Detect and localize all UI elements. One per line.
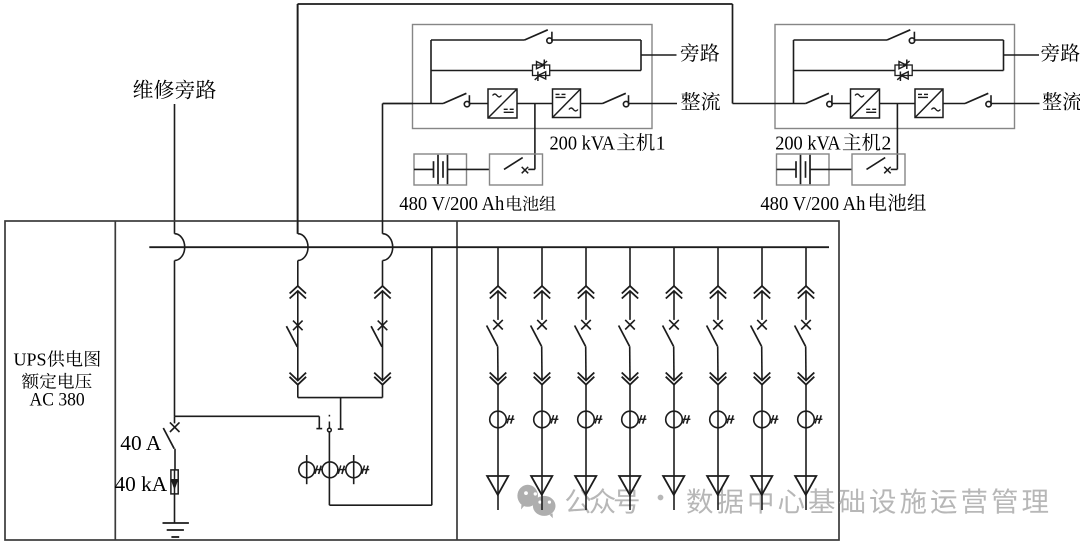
wire feeder F8 below breaker (805, 346, 807, 380)
label board title UPS供电图/额定电压/AC 380 (14, 349, 100, 410)
drawout chevrons lower F4 (622, 373, 639, 385)
wire feeder F2 below breaker (541, 346, 543, 380)
load arrow F2 (531, 476, 552, 495)
rectifier U2 (AC/DC converter box) (915, 89, 943, 118)
wire feeder F1 drop from bus (497, 247, 499, 286)
static switch U2 (anti-parallel thyristors) (895, 60, 912, 82)
svg-text:UPS: UPS (14, 349, 47, 369)
wire U1 to inverter (470, 103, 488, 105)
wire SPD to earth (174, 494, 176, 523)
load arrow F6 (707, 476, 728, 495)
label battery B1 480 V/200 Ah电池组 (399, 193, 555, 215)
breaker QF5 (663, 320, 679, 346)
wire U2 rectifier feed stub (991, 103, 1039, 105)
drawout chevrons upper F8 (798, 286, 814, 299)
label rectifier U2 (整流) (1043, 92, 1080, 111)
drawout chevrons lower F3 (578, 373, 595, 385)
wire U2 rectifier input (943, 103, 965, 105)
wire feeder F6 drop from bus (717, 247, 719, 286)
node drawout hop at UPS2 output feeder (383, 234, 393, 261)
wire U2 bypass right vertical (1003, 40, 1005, 71)
wire U1 DC link (517, 103, 553, 105)
UPS unit U1 enclosure box (413, 25, 653, 129)
breaker UPS2 output feeder (371, 321, 387, 347)
wire U2 bypass top (794, 39, 888, 41)
wire U1 inverter output (383, 103, 443, 105)
switch U2 inverter output isolator (806, 93, 833, 107)
battery B2 cells (777, 155, 853, 184)
drawout chevrons lower F5 (666, 373, 683, 385)
load arrow F1 (487, 476, 508, 495)
breaker QF4 (619, 320, 635, 346)
inverter U1 (DC/AC converter box) (488, 89, 517, 118)
board title section divider (114, 221, 116, 540)
drawout chevrons upper (UPS2 output) (374, 286, 390, 299)
wire feeder F5 drop from bus (673, 247, 675, 286)
breaker QB2 battery (867, 158, 898, 174)
wire U2 DC link (880, 103, 916, 105)
label U1 200 kVA主机1 (550, 133, 666, 154)
wire feeder F6 below breaker (717, 346, 719, 380)
wire feeder F5 to meter (673, 385, 675, 510)
wire U2 static-switch left (794, 70, 896, 72)
wire feeder F3 mid (585, 291, 587, 320)
wire U2 inverter output (733, 103, 806, 105)
meter PA1 with CT tap (299, 455, 322, 484)
label battery B2 480 V/200 Ah电池组 (760, 193, 925, 215)
switch U2 rectifier input isolator (965, 93, 991, 107)
wire UPS2 feed riser (297, 4, 299, 234)
wire feeder F8 mid (805, 291, 807, 320)
switch QB1 battery breaker box (490, 154, 543, 185)
wire U2 to inverter (832, 103, 850, 105)
wire to SPD (174, 449, 176, 470)
wire U1 static-switch left (431, 70, 533, 72)
watermark WeChat logo (517, 485, 555, 519)
meter PA2 with CT tap (322, 462, 346, 478)
meter PA F2 (534, 411, 559, 428)
drawout chevrons upper F3 (578, 286, 594, 299)
wire U1 battery DC riser (534, 104, 536, 170)
wire U1 bypass top right (553, 39, 642, 41)
svg-text:2: 2 (882, 133, 892, 154)
drawout chevrons lower (UPS1 output) (290, 373, 307, 385)
drawout chevrons upper F6 (710, 286, 726, 299)
drawout chevrons lower (UPS2 output) (374, 373, 391, 385)
switch U1 rectifier input isolator (603, 93, 629, 107)
wire feeder F5 mid (673, 291, 675, 320)
wire UPS1 feed riser (383, 104, 414, 234)
meter PA F6 (710, 411, 735, 428)
ground earth electrode (163, 523, 189, 537)
meter PA F8 (798, 411, 823, 428)
wire U2 bypass input stub (1004, 54, 1040, 56)
switch QB2 battery breaker box (852, 154, 905, 185)
node drawout hop at maintenance bypass feeder (175, 234, 185, 261)
drawout chevrons upper (UPS1 output) (290, 286, 306, 299)
SPD FV1 40 kA surge arrester (171, 470, 178, 494)
wire maintenance bypass drop (174, 104, 176, 234)
drawout chevrons lower F2 (534, 373, 551, 385)
switch U1 bypass isolator (525, 30, 553, 44)
svg-text:40 kA: 40 kA (115, 472, 169, 496)
meter PA F4 (622, 411, 647, 428)
label maintenance bypass (维修旁路) (134, 80, 216, 100)
meter PA F5 (666, 411, 691, 428)
meter PA3 with CT tap (346, 455, 369, 484)
svg-text:1: 1 (656, 133, 666, 154)
node transfer switch bypass-side contact (316, 416, 322, 428)
wire U1 bypass input stub (641, 54, 677, 56)
inverter U2 (DC/AC converter box) (851, 89, 880, 118)
wire feeder F3 drop from bus (585, 247, 587, 286)
wire UPS2 output feeder drop (382, 261, 384, 398)
wire feeder F4 drop from bus (629, 247, 631, 286)
battery B1 box (414, 154, 467, 185)
battery B1 cells (414, 155, 490, 184)
wire feeder F4 mid (629, 291, 631, 320)
drawout chevrons upper F7 (754, 286, 770, 299)
breaker QF1 (487, 320, 503, 346)
meter PA F1 (490, 411, 515, 428)
wire SPD branch drop (174, 416, 176, 423)
wire feeder F7 to meter (761, 385, 763, 510)
wire feeder F1 below breaker (497, 346, 499, 380)
transfer switch SA common pole (328, 415, 332, 432)
breaker QF2 (531, 320, 547, 346)
wire maintenance bypass horizontal to transfer switch (175, 415, 320, 417)
wire output bus riser (431, 247, 433, 505)
wire feeder F7 mid (761, 291, 763, 320)
label rectifier U1 (整流) (681, 92, 720, 111)
wire feeder F1 to meter (497, 385, 499, 510)
wire feeder F8 drop from bus (805, 247, 807, 286)
wire feeder F2 drop from bus (541, 247, 543, 286)
wire UPS outputs paralleling tie (298, 397, 383, 399)
drawout chevrons lower F7 (754, 373, 771, 385)
wire feeder F2 mid (541, 291, 543, 320)
load arrow F4 (619, 476, 640, 495)
wire U1 output riser (left inner vertical) (430, 40, 432, 104)
breaker QF3 (575, 320, 591, 346)
breaker QB1 battery (504, 158, 535, 174)
wire top feed from output-bus riser to UPS2 rectifier input (298, 4, 733, 234)
drawout chevrons upper F5 (666, 286, 682, 299)
svg-text:480 V/200 Ah: 480 V/200 Ah (399, 193, 504, 215)
UPS unit U2 enclosure box (775, 25, 1015, 129)
node transfer switch UPS-side contact (338, 398, 344, 430)
wire feeder F5 below breaker (673, 346, 675, 380)
wire feeder F7 drop from bus (761, 247, 763, 286)
svg-text:AC 380: AC 380 (30, 391, 85, 411)
load arrow F8 (795, 476, 816, 495)
wire U1 bypass top (431, 39, 525, 41)
breaker QF8 (795, 320, 811, 346)
wire feeder F8 to meter (805, 385, 807, 510)
meter PA F3 (578, 411, 603, 428)
wire U1 rectifier input (581, 103, 603, 105)
switch U2 bypass isolator (887, 30, 915, 44)
wire U2 static-switch right (912, 70, 1003, 72)
svg-text:200 kVA: 200 kVA (550, 133, 616, 154)
wire feeder F3 to meter (585, 385, 587, 510)
battery B2 box (777, 154, 830, 185)
wire UPS1 output feeder drop (297, 261, 299, 398)
wire feeder F3 below breaker (585, 346, 587, 380)
load arrow F3 (575, 476, 596, 495)
wire feeder F7 below breaker (761, 346, 763, 380)
drawout chevrons upper F1 (490, 286, 506, 299)
wire transfer switch to metering (328, 432, 330, 505)
drawout chevrons lower F8 (798, 373, 815, 385)
wire feeder F1 mid (497, 291, 499, 320)
wire metering to output bus riser (329, 504, 431, 506)
board output section divider (456, 221, 458, 540)
rectifier U1 (AC/DC converter box) (553, 89, 581, 118)
wire feeder F4 below breaker (629, 346, 631, 380)
wire U2 output riser (left inner vertical) (793, 40, 795, 104)
bus UPS output busbar (149, 246, 829, 248)
breaker QF-SPD 40 A (163, 422, 179, 448)
wire U2 bypass top right (915, 39, 1004, 41)
node drawout hop at UPS1 output feeder (298, 234, 308, 261)
drawout chevrons lower F1 (490, 373, 507, 385)
wire feeder F6 to meter (717, 385, 719, 510)
wire feeder F2 to meter (541, 385, 543, 510)
wire U1 rectifier feed stub (629, 103, 677, 105)
wire feeder F6 mid (717, 291, 719, 320)
svg-text:200 kVA: 200 kVA (775, 133, 841, 154)
meter PA F7 (754, 411, 779, 428)
drawout chevrons upper F2 (534, 286, 550, 299)
static switch U1 (anti-parallel thyristors) (533, 60, 550, 82)
wire U1 bypass right vertical (640, 40, 642, 71)
wire U1 static-switch right (550, 70, 641, 72)
load arrow F5 (663, 476, 684, 495)
wire feeder F4 to meter (629, 385, 631, 510)
label bypass U1 (旁路) (681, 43, 719, 62)
wire maintenance bypass below bus (174, 261, 176, 417)
distribution board enclosure (5, 221, 839, 540)
breaker QF6 (707, 320, 723, 346)
load arrow F7 (751, 476, 772, 495)
switch U1 inverter output isolator (443, 93, 470, 107)
breaker UPS1 output feeder (286, 321, 302, 347)
drawout chevrons upper F4 (622, 286, 638, 299)
breaker QF7 (751, 320, 767, 346)
svg-text:40 A: 40 A (120, 431, 162, 455)
label bypass U2 (旁路) (1041, 43, 1079, 62)
drawout chevrons lower F6 (710, 373, 727, 385)
watermark text 公众号·数据中心基础设施运营管理 (566, 488, 1048, 514)
label U2 200 kVA主机2 (775, 133, 891, 154)
svg-text:480 V/200 Ah: 480 V/200 Ah (760, 193, 865, 215)
wire U2 battery DC riser (896, 104, 898, 170)
